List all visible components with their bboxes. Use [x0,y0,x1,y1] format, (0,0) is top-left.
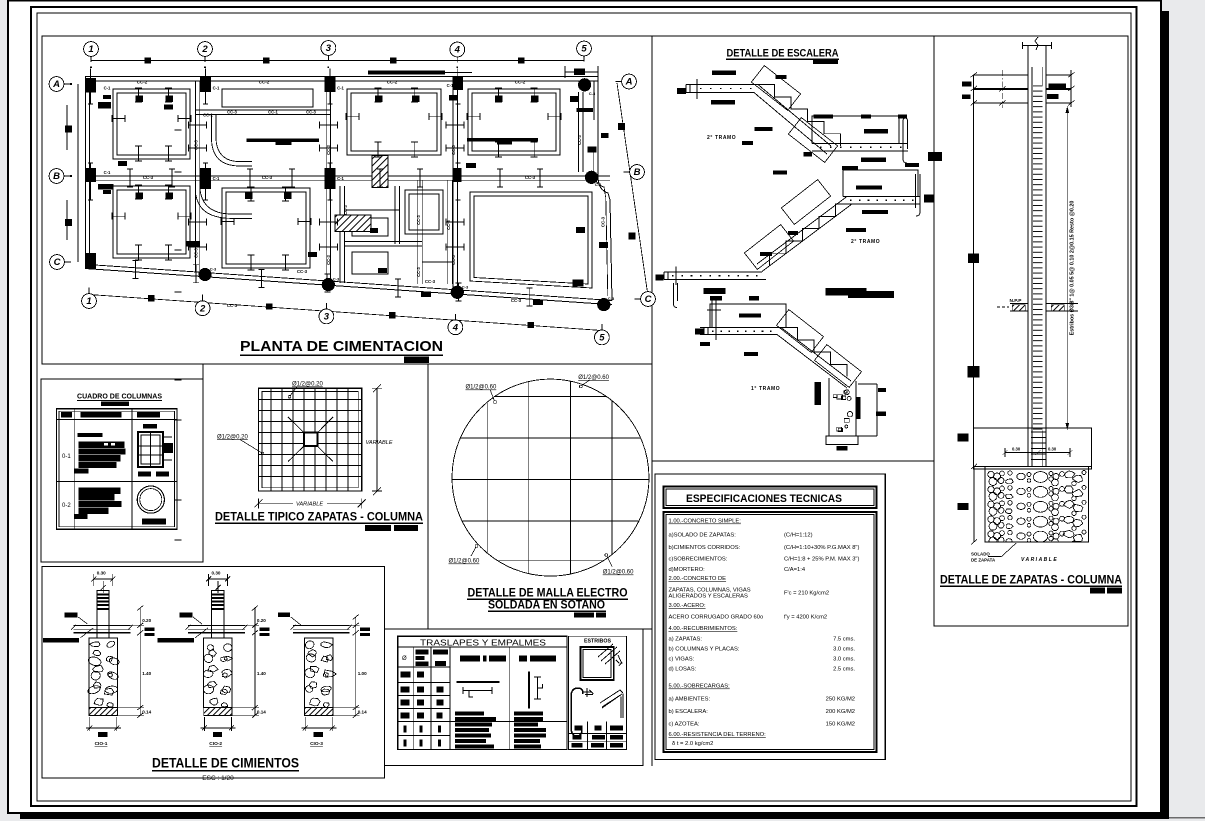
svg-text:250 KG/M2: 250 KG/M2 [826,697,855,703]
svg-text:C-1: C-1 [213,86,220,91]
svg-text:1: 1 [86,296,91,307]
svg-text:5: 5 [581,44,587,55]
svg-text:1° TRAMO: 1° TRAMO [751,386,780,392]
svg-text:0.14: 0.14 [358,710,367,715]
svg-text:2.5 cms.: 2.5 cms. [833,667,855,673]
svg-text:Ø: Ø [402,656,407,662]
svg-text:1.00: 1.00 [358,671,367,676]
svg-text:ALIGERADOS Y ESCALERAS: ALIGERADOS Y ESCALERAS [669,594,748,600]
svg-text:0.14: 0.14 [142,710,151,715]
svg-text:C-1: C-1 [337,176,344,181]
svg-text:CC-2: CC-2 [137,79,148,84]
svg-text:0.30: 0.30 [212,571,221,576]
svg-text:CC-3: CC-3 [446,219,451,229]
svg-text:CC-3: CC-3 [525,175,536,180]
svg-text:2° TRAMO: 2° TRAMO [851,239,880,245]
svg-text:150 KG/M2: 150 KG/M2 [826,722,855,728]
svg-text:CC-3: CC-3 [425,279,436,284]
svg-text:CC-3: CC-3 [416,266,421,276]
svg-text:f'y = 4200 K/cm2: f'y = 4200 K/cm2 [784,615,827,621]
svg-text:CC-3: CC-3 [194,247,199,257]
svg-text:4.00.-RECUBRIMIENTOS:: 4.00.-RECUBRIMIENTOS: [669,626,738,632]
svg-text:SOLDADA EN SOTANO: SOLDADA EN SOTANO [488,600,605,612]
svg-text:DETALLE DE MALLA ELECTRO: DETALLE DE MALLA ELECTRO [468,588,628,600]
svg-text:a) ZAPATAS:: a) ZAPATAS: [669,637,703,643]
svg-text:A: A [625,77,633,88]
svg-text:CC-3: CC-3 [227,303,238,308]
svg-text:c) AZOTEA:: c) AZOTEA: [669,722,700,728]
svg-text:0.30: 0.30 [1048,447,1057,452]
svg-text:CC-3: CC-3 [416,214,421,224]
svg-text:B: B [53,171,60,182]
svg-text:CC-3: CC-3 [451,254,456,264]
svg-text:CC-3: CC-3 [577,134,582,144]
svg-text:δ t = 2.0 kg/cm2: δ t = 2.0 kg/cm2 [672,741,713,747]
svg-text:5: 5 [599,333,605,344]
svg-text:C: C [645,294,652,305]
svg-text:DETALLE TIPICO ZAPATAS - COLUM: DETALLE TIPICO ZAPATAS - COLUMNA [215,512,423,524]
svg-text:C/A=1:4: C/A=1:4 [784,567,806,573]
svg-text:7.5 cms.: 7.5 cms. [833,637,855,643]
svg-text:2: 2 [199,303,206,314]
svg-text:3.00.-ACERO:: 3.00.-ACERO: [669,603,706,609]
svg-text:d)MORTERO:: d)MORTERO: [669,567,706,573]
svg-text:2.00.-CONCRETO DE: 2.00.-CONCRETO DE [669,576,727,582]
svg-text:CIO-2: CIO-2 [209,741,222,747]
svg-text:CC-2: CC-2 [259,79,270,84]
svg-text:VARIABLE: VARIABLE [1021,557,1058,563]
svg-text:6.00.-RESISTENCIA DEL TERRENO:: 6.00.-RESISTENCIA DEL TERRENO: [669,732,767,738]
svg-text:ESPECIFICACIONES TECNICAS: ESPECIFICACIONES TECNICAS [686,493,842,505]
svg-text:C/H=1:8 + 25% P.M. MAX 3"): C/H=1:8 + 25% P.M. MAX 3") [784,557,859,563]
svg-text:C-1: C-1 [447,83,454,88]
svg-text:VARIABLE: VARIABLE [366,440,393,446]
svg-text:A: A [52,79,60,90]
svg-text:4: 4 [452,323,459,334]
svg-text:2: 2 [201,44,208,55]
svg-text:DETALLE DE ZAPATAS - COLUMNA: DETALLE DE ZAPATAS - COLUMNA [940,575,1122,587]
svg-text:a) AMBIENTES:: a) AMBIENTES: [669,697,711,703]
svg-text:C-1: C-1 [213,176,220,181]
svg-text:CC-3: CC-3 [297,269,308,274]
svg-text:c)SOBRECIMIENTOS:: c)SOBRECIMIENTOS: [669,557,728,563]
svg-text:b) COLUMNAS Y PLACAS:: b) COLUMNAS Y PLACAS: [669,647,740,653]
svg-text:C-3: C-3 [210,267,217,272]
svg-text:C-1: C-1 [337,86,344,91]
svg-text:CC-3: CC-3 [306,110,316,115]
svg-text:1.40: 1.40 [142,671,151,676]
svg-text:N.P.P: N.P.P [1010,298,1023,304]
svg-text:Ø1/2@0.60: Ø1/2@0.60 [449,559,480,565]
svg-text:F'c = 210 Kg/cm2: F'c = 210 Kg/cm2 [784,591,829,597]
svg-text:0.14: 0.14 [257,710,266,715]
svg-text:a)SOLADO DE ZAPATAS:: a)SOLADO DE ZAPATAS: [669,533,737,539]
svg-text:b) ESCALERA:: b) ESCALERA: [669,709,709,715]
svg-text:SOLADO: SOLADO [971,552,990,557]
svg-text:0.30: 0.30 [97,571,106,576]
svg-text:PLANTA DE CIMENTACION: PLANTA DE CIMENTACION [240,338,443,355]
svg-text:1.00.-CONCRETO SIMPLE:: 1.00.-CONCRETO SIMPLE: [669,519,742,525]
svg-text:TRASLAPES Y EMPALMES: TRASLAPES Y EMPALMES [420,637,546,647]
svg-text:0.30: 0.30 [1012,447,1021,452]
svg-text:3.0 cms.: 3.0 cms. [833,657,855,663]
svg-text:CC-2: CC-2 [387,79,398,84]
svg-text:CIO-1: CIO-1 [95,741,108,747]
svg-text:C-1: C-1 [104,170,111,175]
svg-text:CC-2: CC-2 [515,79,526,84]
svg-text:C-3: C-3 [462,285,469,290]
svg-text:1: 1 [88,44,93,55]
svg-text:CC-3: CC-3 [194,139,199,149]
svg-text:Ø1/2@0.60: Ø1/2@0.60 [578,375,609,381]
svg-text:CC-3: CC-3 [343,204,348,214]
svg-text:CC-1: CC-1 [203,113,213,118]
svg-text:1.40: 1.40 [257,671,266,676]
svg-text:C-3: C-3 [608,296,615,301]
svg-text:CC-3: CC-3 [262,175,273,180]
svg-text:DETALLE DE CIMIENTOS: DETALLE DE CIMIENTOS [152,756,299,771]
svg-text:CC-3: CC-3 [326,254,331,264]
svg-text:CC-3: CC-3 [326,144,331,154]
svg-text:4: 4 [454,45,461,56]
svg-text:0-2: 0-2 [62,503,71,509]
svg-text:0.20: 0.20 [142,618,151,623]
svg-text:d) LOSAS:: d) LOSAS: [669,667,697,673]
svg-text:CC-3: CC-3 [451,144,456,154]
svg-text:CC-3: CC-3 [601,216,606,227]
svg-text:Ø1/2@0.60: Ø1/2@0.60 [466,385,497,391]
svg-text:0-1: 0-1 [62,454,71,460]
svg-text:CC-1: CC-1 [268,110,278,115]
svg-text:CC-3: CC-3 [511,298,522,303]
svg-text:CIO-3: CIO-3 [310,741,323,747]
svg-text:ESTRIBOS: ESTRIBOS [584,639,612,645]
svg-text:VARIABLE: VARIABLE [296,501,323,507]
svg-text:(C/H=1:10+30% P.G.MAX 8"): (C/H=1:10+30% P.G.MAX 8") [784,545,859,551]
svg-text:Ø1/2@0.60: Ø1/2@0.60 [603,570,634,576]
svg-text:Ø1/2@0.20: Ø1/2@0.20 [217,434,248,440]
svg-text:3: 3 [324,312,330,323]
svg-text:C-3: C-3 [333,277,340,282]
svg-text:C-3: C-3 [589,91,596,96]
svg-text:DE ZAPATA: DE ZAPATA [971,558,996,563]
svg-text:CC-3: CC-3 [227,110,237,115]
svg-text:Estribos Ø3/8" 1@ 0.05 5@ 0.10: Estribos Ø3/8" 1@ 0.05 5@ 0.10 2@0.15 Re… [1070,201,1076,336]
svg-text:5.00.-SOBRECARGAS:: 5.00.-SOBRECARGAS: [669,684,731,690]
svg-text:200 KG/M2: 200 KG/M2 [826,709,855,715]
svg-text:CC-3: CC-3 [143,175,154,180]
svg-text:c) VIGAS:: c) VIGAS: [669,657,695,663]
svg-text:b)CIMIENTOS CORRIDOS:: b)CIMIENTOS CORRIDOS: [669,545,741,551]
svg-text:3: 3 [326,43,332,54]
svg-text:C-1: C-1 [104,86,111,91]
svg-text:DETALLE DE ESCALERA: DETALLE DE ESCALERA [727,48,839,60]
svg-text:C: C [54,257,61,268]
svg-text:2° TRAMO: 2° TRAMO [707,135,736,141]
svg-text:ESC : 1/20: ESC : 1/20 [202,775,234,782]
svg-text:B: B [634,167,641,178]
svg-text:CUADRO DE COLUMNAS: CUADRO DE COLUMNAS [77,394,162,401]
svg-text:0.20: 0.20 [257,618,266,623]
svg-text:C-3: C-3 [595,182,602,187]
svg-text:ACERO CORRUGADO GRADO 60o: ACERO CORRUGADO GRADO 60o [669,615,764,621]
svg-text:(C/H=1:12): (C/H=1:12) [784,533,813,539]
svg-text:3.0 cms.: 3.0 cms. [833,647,855,653]
